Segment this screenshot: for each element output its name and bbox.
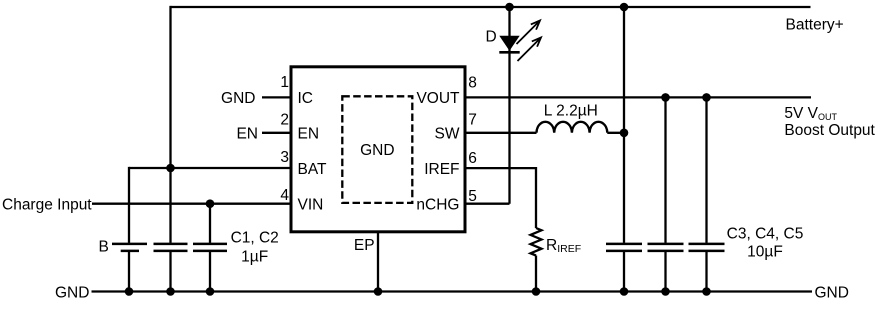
capacitor C1 plates bbox=[154, 244, 188, 251]
wire pin 1 stub (GND to IC) bbox=[262, 96, 291, 98]
svg-text:EP: EP bbox=[354, 237, 375, 254]
svg-text:EN: EN bbox=[298, 126, 320, 143]
svg-text:6: 6 bbox=[468, 150, 477, 167]
node GND dot C1 column bbox=[166, 287, 175, 296]
svg-text:C3, C4, C5: C3, C4, C5 bbox=[727, 226, 804, 243]
node GND dot resistor column bbox=[532, 287, 541, 296]
svg-text:1µF: 1µF bbox=[241, 248, 268, 265]
resistor R_IREF zigzag bbox=[531, 228, 542, 256]
svg-text:2: 2 bbox=[280, 112, 289, 129]
svg-text:SW: SW bbox=[435, 126, 460, 143]
wire capacitor C1 bottom lead bbox=[169, 252, 171, 292]
LED D cathode bar bbox=[499, 51, 519, 54]
node GND dot EP column bbox=[374, 287, 383, 296]
svg-text:7: 7 bbox=[468, 112, 477, 129]
node GND dot battery column bbox=[125, 287, 134, 296]
capacitor C5 plates bbox=[689, 244, 725, 251]
op-amp U1 IC body rectangle bbox=[291, 67, 465, 232]
capacitor C4 plates bbox=[648, 244, 684, 251]
wire GND bottom rail bbox=[92, 290, 813, 292]
wire EP lead bbox=[377, 232, 379, 292]
wire Battery+ top rail bbox=[171, 6, 811, 8]
svg-text:B: B bbox=[99, 239, 109, 256]
svg-text:1: 1 bbox=[280, 74, 289, 91]
wire battery B top lead (x=129 down) bbox=[128, 167, 130, 243]
svg-text:IC: IC bbox=[298, 90, 314, 107]
svg-text:VOUT: VOUT bbox=[416, 90, 460, 107]
wire LED column (top rail to nCHG) bbox=[508, 7, 510, 204]
svg-text:C1, C2: C1, C2 bbox=[231, 230, 279, 247]
svg-text:10µF: 10µF bbox=[747, 243, 783, 260]
node junction dot on top rail at LED column bbox=[505, 3, 514, 12]
wire BAT pin 3 to battery branch bbox=[129, 167, 291, 169]
LED arrow 1 bbox=[517, 21, 541, 45]
node junction dot BAT line x=170.5 bbox=[166, 164, 175, 173]
wire capacitor C1 top lead (x=170.5) bbox=[169, 168, 171, 243]
wire SW pin 7 stub bbox=[465, 132, 537, 134]
wire C5 bottom lead bbox=[705, 252, 707, 292]
svg-text:Charge Input: Charge Input bbox=[2, 196, 92, 213]
wire IREF pin 6 to resistor bbox=[465, 168, 536, 228]
svg-text:4: 4 bbox=[280, 187, 289, 204]
capacitor C2 plates bbox=[193, 244, 227, 251]
node junction dot VIN line x=210 bbox=[206, 199, 215, 208]
wire C3 bottom lead bbox=[623, 252, 625, 292]
wire capacitor C2 top lead (x=210) bbox=[209, 204, 211, 243]
svg-text:GND: GND bbox=[55, 284, 89, 301]
node GND dot C3 column bbox=[620, 287, 629, 296]
node GND dashed internal box bbox=[342, 96, 412, 203]
node junction dot VOUT rail at C4 bbox=[661, 93, 670, 102]
svg-text:EN: EN bbox=[236, 126, 258, 143]
node junction dot on top rail at inductor column bbox=[620, 3, 629, 12]
wire C4 bottom lead bbox=[664, 252, 666, 292]
node GND dot C5 column bbox=[702, 287, 711, 296]
svg-text:5V VOUT: 5V VOUT bbox=[784, 105, 837, 122]
wire Charge Input to VIN pin 4 bbox=[92, 203, 291, 205]
svg-text:BAT: BAT bbox=[298, 161, 328, 178]
svg-text:Boost Output: Boost Output bbox=[784, 122, 875, 139]
svg-text:GND: GND bbox=[815, 284, 849, 301]
battery B plates bbox=[112, 244, 147, 251]
wire inductor to riser bbox=[607, 132, 624, 134]
svg-text:Battery+: Battery+ bbox=[786, 17, 844, 34]
LED D triangle bbox=[499, 36, 519, 51]
svg-text:5: 5 bbox=[468, 188, 477, 205]
wire battery B bottom lead bbox=[128, 252, 130, 292]
wire pin 2 stub (EN) bbox=[262, 132, 291, 134]
node GND dot C4 column bbox=[661, 287, 670, 296]
svg-text:VIN: VIN bbox=[298, 196, 324, 213]
svg-text:D: D bbox=[486, 29, 497, 46]
inductor L 2.2uH bbox=[537, 122, 608, 133]
svg-text:GND: GND bbox=[360, 142, 394, 159]
wire nCHG pin 5 stub bbox=[465, 203, 510, 205]
LED arrow 2 bbox=[518, 38, 542, 62]
svg-text:8: 8 bbox=[468, 74, 477, 91]
svg-text:L 2.2µH: L 2.2µH bbox=[544, 103, 598, 120]
wire resistor bottom lead bbox=[535, 256, 537, 292]
svg-text:nCHG: nCHG bbox=[416, 196, 459, 213]
wire C4 top lead bbox=[664, 97, 666, 243]
node GND dot C2 column bbox=[206, 287, 215, 296]
wire battery riser x=624 (top rail to C3) bbox=[623, 7, 625, 243]
wire C5 top lead bbox=[705, 97, 707, 243]
capacitor C3 plates bbox=[606, 244, 642, 251]
svg-text:RIREF: RIREF bbox=[546, 237, 581, 255]
svg-text:3: 3 bbox=[280, 149, 289, 166]
svg-text:GND: GND bbox=[221, 90, 255, 107]
node junction dot inductor to battery riser bbox=[620, 129, 629, 138]
svg-text:IREF: IREF bbox=[424, 161, 459, 178]
wire BAT riser (x=170.5 from top rail to BAT junction) bbox=[169, 6, 171, 168]
node junction dot VOUT rail at C5 bbox=[702, 93, 711, 102]
wire VOUT pin 8 rail bbox=[465, 96, 811, 98]
wire capacitor C2 bottom lead bbox=[209, 252, 211, 292]
